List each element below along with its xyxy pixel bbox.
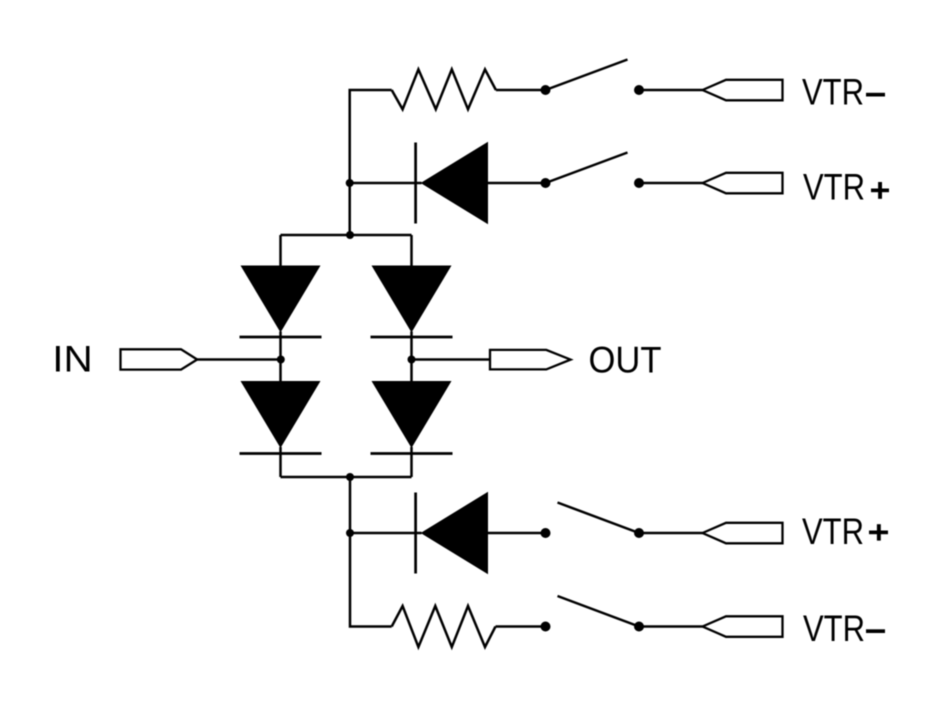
switch S4 pole dot: [541, 622, 551, 632]
svg-text:VTR: VTR: [803, 166, 865, 208]
wire: S3 to port VTR+ (lower): [639, 532, 703, 535]
diode D1 (bridge top-left, points down): [241, 266, 321, 333]
wire: bridge to OUT port: [412, 358, 491, 361]
wire: main vertical bus top (corner at resistor row down to bridge top rail): [350, 90, 392, 235]
wire: main vertical bus bottom (bottom rail down, corner to resistor row): [350, 477, 392, 627]
wire: bus to D5 cathode: [350, 182, 422, 185]
wire: left column mid: [279, 332, 282, 382]
switch S3 blade (open): [558, 503, 640, 534]
switch S1 blade (open): [546, 60, 628, 91]
svg-text:VTR: VTR: [803, 607, 865, 649]
wire: bridge top rail: [281, 234, 412, 237]
svg-text:OUT: OUT: [589, 339, 662, 381]
wire: S4 to port VTR- (bottom): [639, 625, 703, 628]
diode D4 (bridge bottom-right, points down): [372, 381, 452, 448]
node: top rail center junction: [346, 231, 354, 239]
diode D5 (points left, to VTR+): [421, 142, 488, 224]
resistor R2 (bottom, to VTR-): [392, 606, 496, 647]
diode D3 (bridge top-right, points down): [372, 266, 452, 333]
diode D4 cathode bar: [371, 452, 453, 455]
node: junction of bus and diode D6 row: [346, 529, 354, 537]
port flag VTR- (top): [703, 80, 783, 101]
wire: left column bottom stub: [279, 447, 282, 477]
wire: right column top stub: [410, 235, 413, 266]
wire: D5 anode to switch S2: [488, 182, 546, 185]
node: junction of bus and diode D5 row: [346, 179, 354, 187]
node: OUT junction: [408, 356, 416, 364]
switch S4 throw dot: [634, 622, 644, 632]
wire: IN port to bridge: [197, 358, 281, 361]
diode D6 (points left, to VTR+): [421, 492, 488, 574]
switch S1 pole dot: [541, 85, 551, 95]
svg-text:VTR: VTR: [802, 71, 864, 113]
diode D2 (bridge bottom-left, points down): [241, 381, 321, 448]
svg-text:IN: IN: [52, 338, 93, 380]
switch S2 pole dot: [541, 178, 551, 188]
switch S1 throw dot: [634, 85, 644, 95]
switch S2 blade (open): [546, 153, 628, 184]
port flag OUT: [490, 350, 571, 370]
diode D1 cathode bar: [240, 336, 322, 339]
wire: bridge bottom rail: [281, 476, 412, 479]
wire: R1 to switch S1: [496, 89, 546, 92]
port flag VTR+ (upper): [703, 173, 783, 194]
wire: left column top stub: [279, 235, 282, 266]
node: IN junction: [277, 356, 285, 364]
switch S4 blade (open): [558, 596, 640, 627]
port flag IN: [121, 349, 198, 369]
diode D2 cathode bar: [240, 452, 322, 455]
switch S3 throw dot: [634, 528, 644, 538]
diode D6 cathode bar: [414, 493, 417, 574]
switch S3 pole dot: [541, 528, 551, 538]
wire: D6 anode to switch S3: [488, 532, 546, 535]
wire: R2 to switch S4: [496, 625, 546, 628]
diode D3 cathode bar: [371, 336, 453, 339]
node: bottom rail center junction: [346, 473, 354, 481]
wire: right column bottom stub: [410, 447, 413, 477]
wire: right column mid: [410, 332, 413, 382]
port flag VTR- (bottom): [703, 616, 783, 637]
port flag VTR+ (lower): [703, 523, 783, 544]
diode D5 cathode bar: [414, 143, 417, 224]
wire: S1 to port VTR- (top): [639, 89, 703, 92]
svg-text:VTR: VTR: [802, 510, 864, 552]
switch S2 throw dot: [634, 178, 644, 188]
resistor R1 (top, to VTR-): [392, 69, 496, 109]
wire: S2 to port VTR+ (upper): [639, 182, 703, 185]
wire: bus to D6 cathode: [350, 532, 422, 535]
